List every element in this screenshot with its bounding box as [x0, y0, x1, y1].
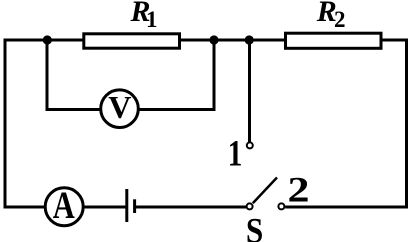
svg-text:2: 2	[288, 170, 310, 210]
switch contact 1	[247, 142, 253, 148]
wire ammeter to battery	[84, 206, 126, 209]
node junction dot A (R1 left / voltmeter tap)	[43, 35, 52, 44]
wire voltmeter branch right vertical	[213, 39, 216, 112]
svg-text:S: S	[246, 211, 263, 242]
wire branch to contact 1	[248, 39, 251, 143]
switch S contact 2	[278, 203, 284, 209]
svg-text:A: A	[53, 184, 75, 227]
svg-text:V: V	[108, 89, 131, 125]
wire top right segment	[381, 39, 408, 42]
battery short plate	[133, 199, 136, 213]
wire left border	[4, 39, 7, 209]
resistor R2	[286, 33, 382, 48]
wire bottom middle segment (battery to switch)	[136, 206, 247, 209]
battery long plate	[125, 189, 128, 222]
wire voltmeter branch right horizontal	[139, 108, 216, 111]
wire top left segment	[4, 39, 85, 42]
voltmeter V circle	[101, 90, 139, 128]
node junction dot C (branch to contact 1)	[245, 35, 254, 44]
switch S pivot contact	[247, 203, 253, 209]
wire voltmeter branch left horizontal	[46, 108, 101, 111]
wire ammeter to left border	[4, 206, 46, 209]
wire bottom right segment	[285, 206, 408, 209]
wire right border	[405, 39, 408, 209]
switch S blade	[253, 178, 277, 204]
resistor R1	[84, 34, 180, 48]
svg-text:2: 2	[334, 7, 346, 32]
svg-text:1: 1	[146, 7, 158, 32]
svg-text:1: 1	[228, 133, 243, 174]
node junction dot B (voltmeter branch right)	[209, 35, 218, 44]
wire top middle segment (R1 to R2)	[180, 39, 287, 42]
ammeter A circle	[45, 188, 83, 226]
wire voltmeter branch left vertical	[46, 39, 49, 112]
